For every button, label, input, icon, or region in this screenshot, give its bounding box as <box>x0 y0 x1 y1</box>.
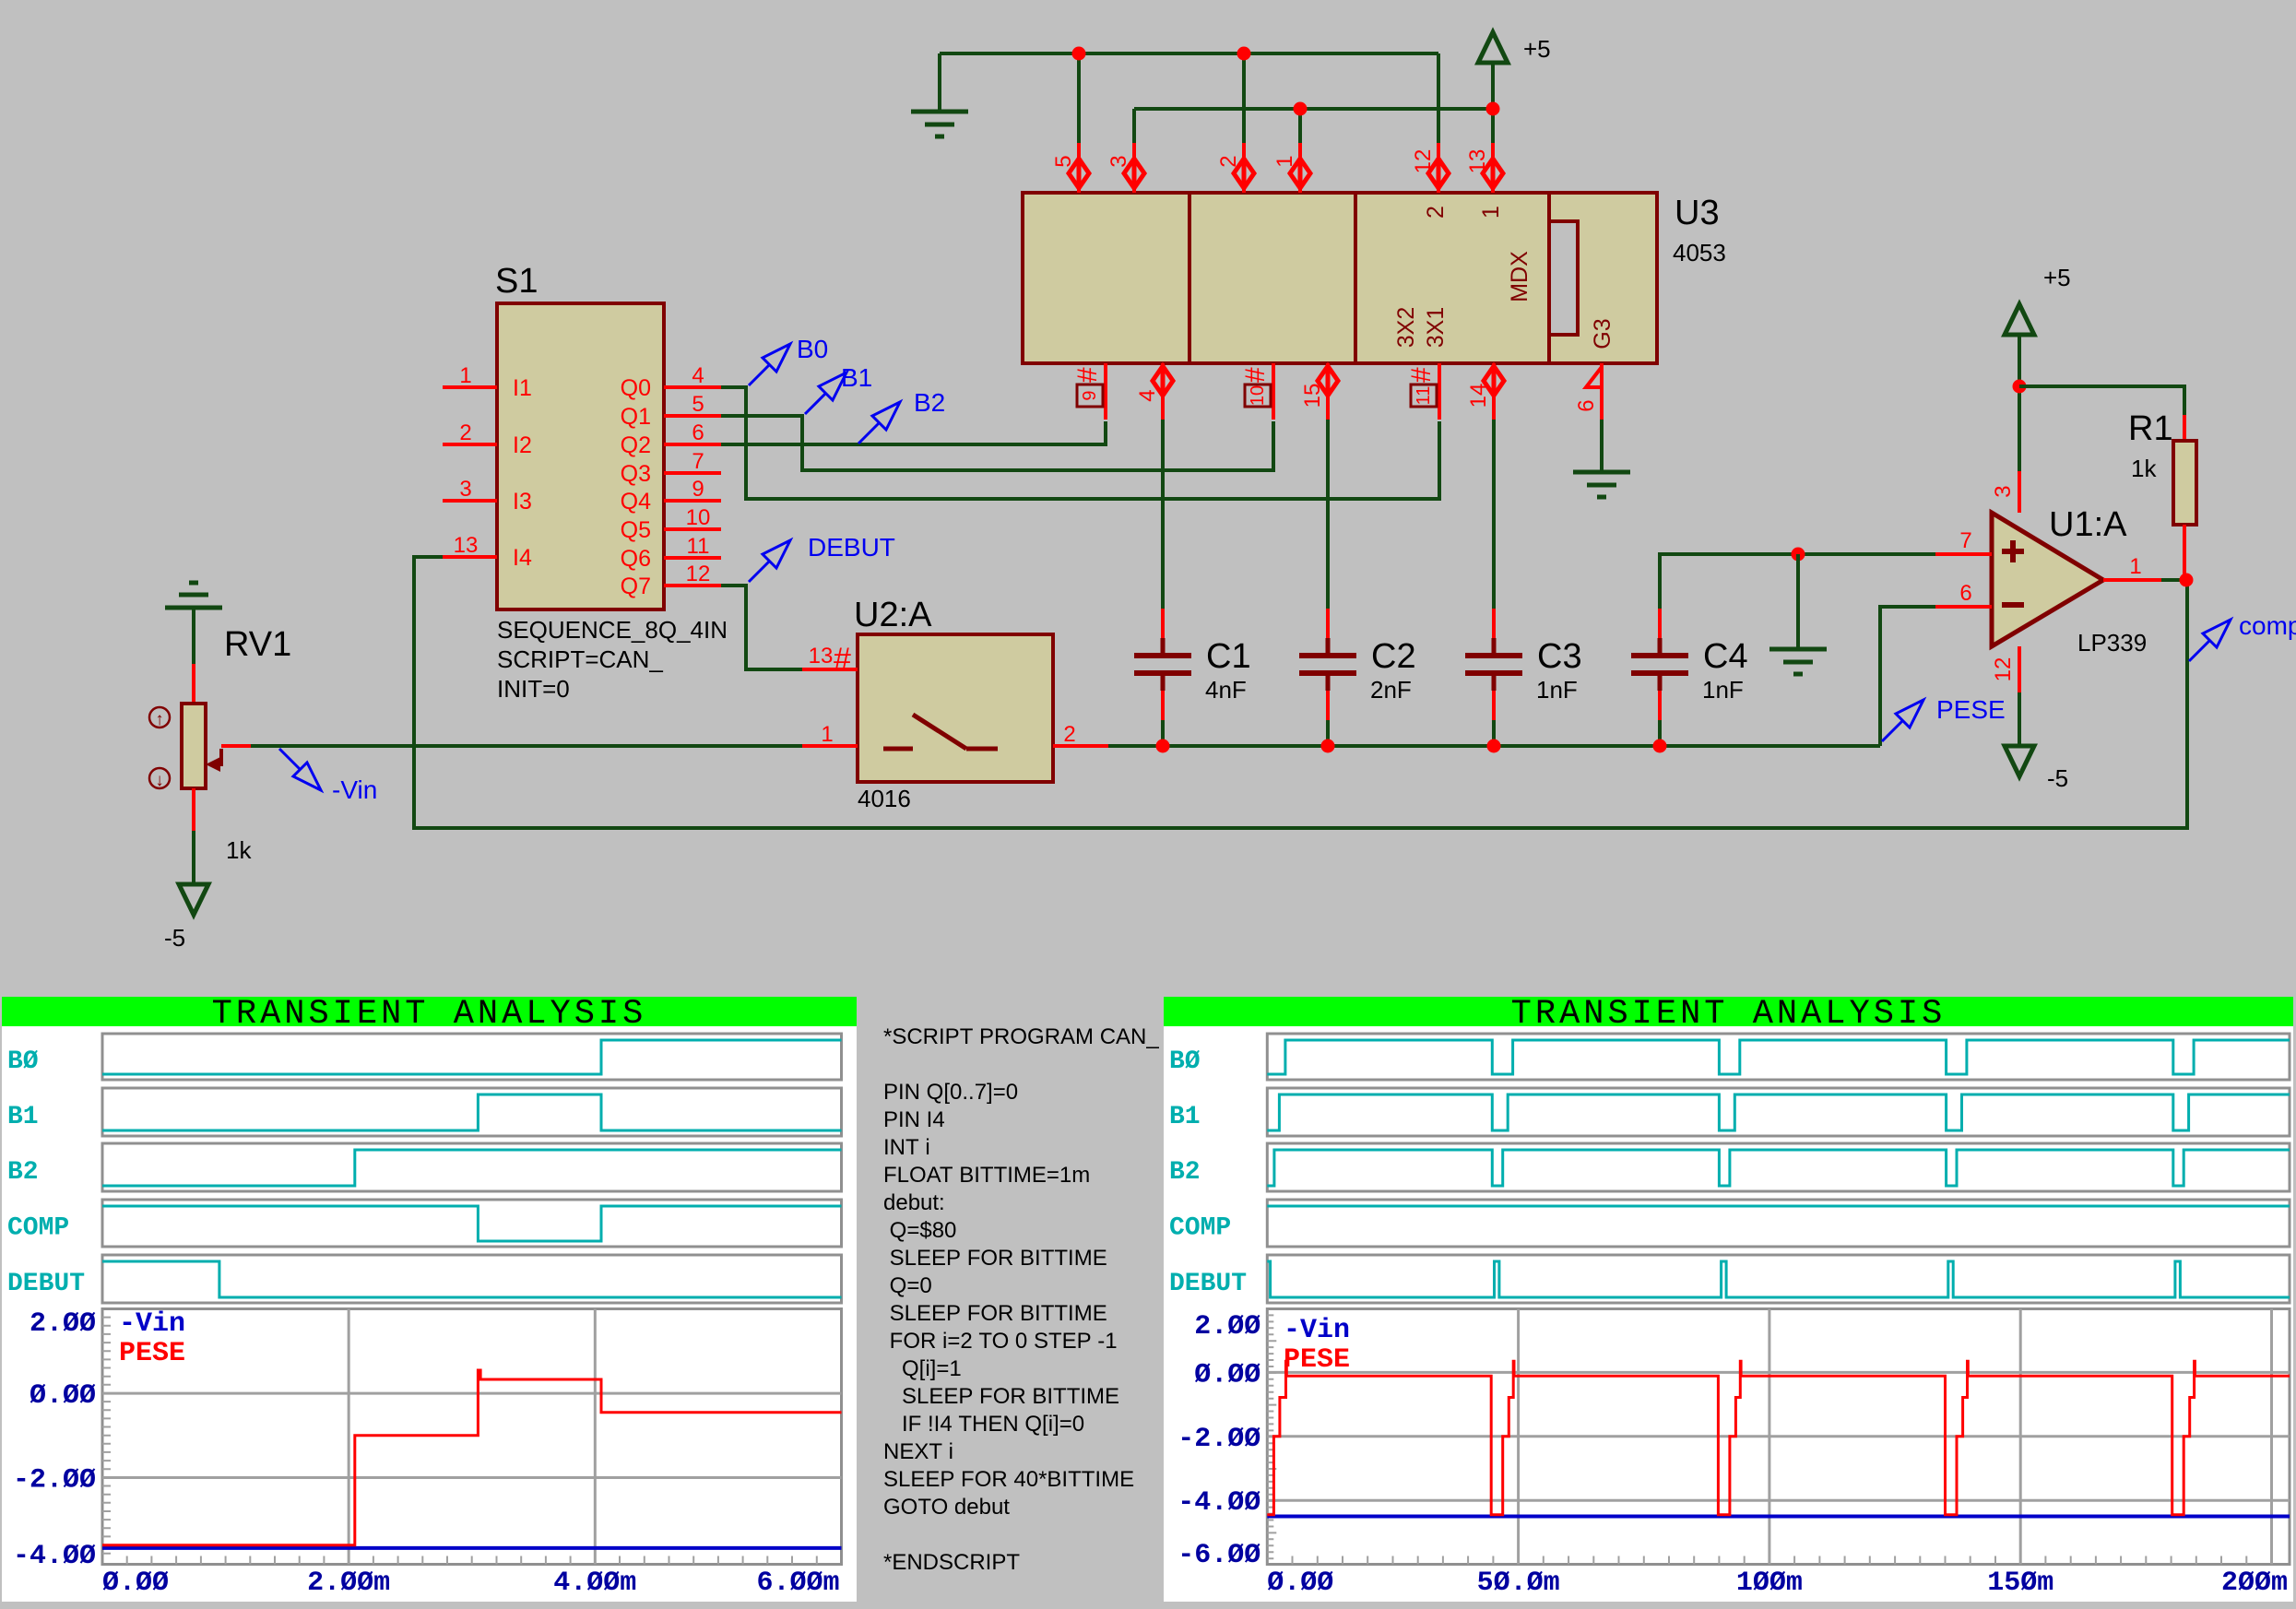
svg-text:+5: +5 <box>1523 35 1551 63</box>
svg-text:PESE: PESE <box>1936 695 2006 724</box>
U2 pin 1 <box>802 744 858 748</box>
svg-text:6: 6 <box>692 420 704 445</box>
left panel gridlines <box>102 1392 842 1395</box>
trace DEBUT (right) <box>1267 1261 2290 1297</box>
wire RV1 wiper to U2 pin 1 <box>221 744 251 748</box>
mux U3 body <box>1023 193 1549 363</box>
svg-text:1ØØm: 1ØØm <box>1736 1568 1803 1599</box>
net label DEBUT <box>749 540 790 582</box>
wire +5 to R1 <box>2019 386 2184 415</box>
ground (above RV1) <box>165 606 222 610</box>
U3 pin 6 (G3 enable) <box>1600 363 1604 420</box>
net label B0 <box>749 344 790 385</box>
S1 input pin I1 <box>443 385 497 389</box>
svg-text:↑: ↑ <box>155 710 164 729</box>
svg-text:C1: C1 <box>1206 637 1251 676</box>
junction dot +5/R1 <box>2013 380 2027 394</box>
capacitor C4 <box>1658 609 1662 638</box>
svg-text:Ø.ØØ: Ø.ØØ <box>102 1568 169 1599</box>
svg-text:1: 1 <box>459 363 471 388</box>
svg-text:U1:A: U1:A <box>2049 505 2127 544</box>
trace PESE (left) <box>102 1370 842 1545</box>
svg-text:1: 1 <box>1478 206 1504 219</box>
analogue plot box <box>1267 1309 2290 1565</box>
svg-text:3: 3 <box>459 477 471 502</box>
svg-text:-5: -5 <box>2047 764 2068 792</box>
trace COMP (right) <box>1267 1205 2290 1208</box>
svg-text:COMP: COMP <box>1169 1214 1231 1243</box>
U3 bottom bus pin 11 <box>1438 363 1441 420</box>
svg-text:12: 12 <box>1411 149 1436 174</box>
trace B0 (right) <box>1267 1040 2290 1074</box>
wire rail U2 pin2 to PESE corner <box>1108 744 1880 748</box>
svg-text:1: 1 <box>2129 554 2141 579</box>
svg-text:12: 12 <box>1991 657 2016 682</box>
S1 input pin I2 <box>443 443 497 446</box>
ground (top-left) <box>911 110 968 114</box>
svg-text:TRANSIENT ANALYSIS: TRANSIENT ANALYSIS <box>212 995 647 1034</box>
svg-text:6: 6 <box>1959 581 1971 606</box>
svg-text:C2: C2 <box>1371 637 1416 676</box>
svg-text:4: 4 <box>1135 389 1160 401</box>
wire Q0/B0 to U3 pin 11 <box>721 387 1439 499</box>
svg-text:LP339: LP339 <box>2077 629 2147 657</box>
wire U3 pin5 drop <box>1077 53 1081 143</box>
right panel minor ticks <box>1267 1315 2246 1564</box>
svg-text:-4.ØØ: -4.ØØ <box>1178 1487 1260 1519</box>
power +5 (top) <box>1478 32 1508 63</box>
svg-text:Q0: Q0 <box>621 375 651 401</box>
S1 output pin Q3 <box>664 471 721 475</box>
wire Q1/B1 to U3 pin 10 <box>721 416 1273 470</box>
graph panel background <box>1164 997 2293 1602</box>
U3 bottom pin 4 <box>1161 363 1165 420</box>
svg-text:B2: B2 <box>1169 1158 1201 1187</box>
svg-text:Ø.ØØ: Ø.ØØ <box>1194 1359 1260 1390</box>
U3 top pin 13 <box>1491 143 1495 193</box>
wire Q2/B2 to U3 pin 9 <box>721 421 1106 444</box>
svg-text:10: 10 <box>686 505 711 530</box>
wire I4 feedback <box>414 557 2187 828</box>
svg-text:13: 13 <box>809 644 834 668</box>
U1 pin 1 (out) <box>2103 578 2161 582</box>
svg-text:-4.ØØ: -4.ØØ <box>13 1541 96 1572</box>
capacitor C1 <box>1161 609 1165 638</box>
svg-text:2.ØØm: 2.ØØm <box>307 1568 390 1599</box>
S1 output pin Q4 <box>664 499 721 503</box>
U3 bottom bus pin 9 <box>1104 363 1107 420</box>
U2 pin 2 <box>1053 744 1108 748</box>
svg-text:2: 2 <box>1423 206 1449 219</box>
svg-text:Q3: Q3 <box>621 461 651 487</box>
svg-text:11: 11 <box>1414 386 1434 406</box>
wire pin6 run <box>1880 605 1935 609</box>
svg-text:+5: +5 <box>2043 264 2071 291</box>
svg-text:Q2: Q2 <box>621 432 651 458</box>
svg-text:MDX: MDX <box>1507 251 1533 302</box>
junction dot output <box>2180 574 2194 587</box>
net label B1 <box>805 373 846 414</box>
net label comp <box>2189 620 2231 661</box>
svg-text:1nF: 1nF <box>1536 676 1578 704</box>
svg-text:3X1: 3X1 <box>1423 307 1449 348</box>
svg-text:9: 9 <box>692 477 704 502</box>
capacitor C3 <box>1492 609 1496 638</box>
svg-text:B0: B0 <box>797 335 828 363</box>
power +5 (U1) <box>2005 304 2034 335</box>
graph title bar <box>2 997 857 1026</box>
trace -Vin (left) <box>102 1546 842 1550</box>
trace B2 (left) <box>102 1150 842 1186</box>
svg-text:9: 9 <box>1080 390 1100 400</box>
svg-text:Q6: Q6 <box>621 546 651 572</box>
svg-text:10: 10 <box>1248 385 1268 406</box>
svg-text:-Vin: -Vin <box>1284 1315 1350 1346</box>
potentiometer RV1 <box>192 664 195 704</box>
svg-text:11: 11 <box>687 534 710 559</box>
ground (near U1) <box>1769 647 1827 652</box>
svg-text:I4: I4 <box>513 545 532 571</box>
svg-text:13: 13 <box>1465 149 1490 174</box>
svg-text:DEBUT: DEBUT <box>808 533 895 562</box>
svg-text:1: 1 <box>821 722 833 747</box>
svg-text:C4: C4 <box>1703 637 1748 676</box>
junction dot +input/ground <box>1792 548 1805 562</box>
svg-text:2ØØm: 2ØØm <box>2221 1568 2288 1599</box>
svg-text:#: # <box>1072 367 1103 383</box>
S1 output pin Q7 <box>664 584 721 587</box>
U1 pin 12 (V-) <box>2018 646 2021 692</box>
S1 output pin Q1 <box>664 414 721 418</box>
U3 top pin 12 <box>1437 143 1440 193</box>
svg-text:#: # <box>1406 367 1437 383</box>
U3 bottom pin 15 <box>1326 363 1330 420</box>
simulation script text block <box>883 1023 1159 1577</box>
svg-text:COMP: COMP <box>7 1214 69 1243</box>
svg-text:2nF: 2nF <box>1370 676 1412 704</box>
digital trace row boxes <box>1267 1034 2290 1080</box>
svg-text:1k: 1k <box>2131 455 2157 482</box>
svg-text:-6.ØØ: -6.ØØ <box>1178 1540 1260 1571</box>
svg-text:5: 5 <box>692 392 704 417</box>
svg-text:2: 2 <box>1216 155 1241 167</box>
S1 input pin I4 <box>443 555 497 559</box>
svg-text:-Vin: -Vin <box>332 775 377 804</box>
U3 bottom pin 14 <box>1492 363 1496 420</box>
svg-text:B1: B1 <box>1169 1103 1201 1131</box>
svg-text:14: 14 <box>1466 384 1491 408</box>
wire junction to ground <box>1796 554 1800 649</box>
svg-text:3: 3 <box>1991 485 2016 497</box>
wire pin6 to ground <box>1600 420 1604 472</box>
comparator U1:A <box>1992 513 2103 646</box>
svg-text:6.ØØm: 6.ØØm <box>756 1568 839 1599</box>
graph panel background <box>2 997 857 1602</box>
svg-text:1: 1 <box>1272 155 1297 167</box>
svg-text:2.ØØ: 2.ØØ <box>30 1308 96 1340</box>
S1 output pin Q2 <box>664 443 721 446</box>
svg-text:-5: -5 <box>164 924 185 952</box>
svg-text:4: 4 <box>692 363 704 388</box>
svg-text:5Ø.Øm: 5Ø.Øm <box>1477 1568 1560 1599</box>
net label B2 <box>858 402 900 444</box>
svg-text:Q1: Q1 <box>621 404 651 430</box>
svg-text:Q4: Q4 <box>621 489 651 515</box>
S1 input pin I3 <box>443 499 497 503</box>
svg-text:TRANSIENT ANALYSIS: TRANSIENT ANALYSIS <box>1511 995 1947 1034</box>
wire U3 pin12 drop <box>1437 53 1440 143</box>
wire C4 to +input <box>1660 554 1935 609</box>
svg-text:-2.ØØ: -2.ØØ <box>1178 1424 1260 1455</box>
trace B1 (left) <box>102 1094 842 1130</box>
svg-text:2: 2 <box>459 420 471 445</box>
svg-text:comp: comp <box>2239 611 2296 640</box>
net label -Vin <box>279 749 321 790</box>
wire U3 pin4 to C1 <box>1161 420 1165 609</box>
svg-text:Ø.ØØ: Ø.ØØ <box>1267 1568 1333 1599</box>
svg-text:SEQUENCE_8Q_4IN: SEQUENCE_8Q_4IN <box>497 616 728 644</box>
U3 bottom bus pin 10 <box>1272 363 1275 420</box>
ground (below G3) <box>1573 470 1630 475</box>
svg-text:PESE: PESE <box>1284 1344 1350 1376</box>
trace B2 (right) <box>1267 1150 2290 1186</box>
svg-text:1k: 1k <box>226 836 252 864</box>
svg-text:SCRIPT=CAN_: SCRIPT=CAN_ <box>497 645 663 673</box>
svg-text:Q5: Q5 <box>621 517 651 543</box>
svg-text:3X2: 3X2 <box>1393 307 1419 348</box>
S1 output pin Q0 <box>664 385 721 389</box>
svg-text:4.ØØm: 4.ØØm <box>553 1568 636 1599</box>
trace -Vin (right) <box>1267 1515 2290 1519</box>
svg-text:1nF: 1nF <box>1702 676 1744 704</box>
digital trace row boxes <box>102 1034 842 1080</box>
trace B1 (right) <box>1267 1094 2290 1130</box>
svg-text:3: 3 <box>1107 155 1131 167</box>
wire U3 pin3 drop <box>1132 109 1136 143</box>
U3 top pin 1 <box>1298 143 1302 193</box>
resistor R1 <box>2183 415 2186 441</box>
wire U3 pin1 drop <box>1298 109 1302 143</box>
junction dot rail/pin1 <box>1294 102 1308 116</box>
svg-text:-2.ØØ: -2.ØØ <box>13 1465 96 1497</box>
svg-text:Q7: Q7 <box>621 574 651 599</box>
wire U3 pin14 to C3 <box>1492 420 1496 609</box>
switch U2:A body <box>858 634 1053 782</box>
junction dot rail/pin5 <box>1072 47 1086 61</box>
svg-text:7: 7 <box>1959 528 1971 553</box>
svg-text:INIT=0: INIT=0 <box>497 675 570 703</box>
wire U3 pin2 drop <box>1242 53 1246 143</box>
sequence generator S1 body <box>497 303 664 609</box>
right panel gridlines <box>1267 1371 2290 1374</box>
trace COMP (left) <box>102 1206 842 1241</box>
svg-text:R1: R1 <box>2128 409 2173 448</box>
power -5 (below RV1) <box>179 884 208 915</box>
junction dot rail/pin2 <box>1237 47 1251 61</box>
svg-text:13: 13 <box>454 533 479 558</box>
wire +5 stem to pin13 <box>1491 63 1495 143</box>
svg-text:B2: B2 <box>7 1158 39 1187</box>
svg-text:Ø.ØØ: Ø.ØØ <box>30 1380 96 1412</box>
svg-text:I3: I3 <box>513 489 532 515</box>
svg-text:B1: B1 <box>7 1103 39 1131</box>
svg-text:7: 7 <box>692 449 704 474</box>
svg-text:BØ: BØ <box>1169 1047 1201 1076</box>
trace PESE (right) <box>1267 1361 2290 1515</box>
trace B0 (left) <box>102 1040 842 1074</box>
svg-text:2: 2 <box>1063 722 1075 747</box>
net label PESE <box>1882 700 1923 741</box>
svg-text:U2:A: U2:A <box>854 596 932 634</box>
svg-text:RV1: RV1 <box>224 625 291 664</box>
U2 pin 13 (control) <box>802 668 858 671</box>
svg-text:#: # <box>1240 367 1271 383</box>
U3 top pin 5 <box>1077 143 1081 193</box>
svg-text:U3: U3 <box>1675 194 1720 232</box>
svg-text:2.ØØ: 2.ØØ <box>1194 1311 1260 1343</box>
S1 output pin Q6 <box>664 556 721 560</box>
S1 output pin Q5 <box>664 527 721 531</box>
svg-text:BØ: BØ <box>7 1047 39 1076</box>
junction dot rail/+5 <box>1486 102 1500 116</box>
svg-text:↓: ↓ <box>155 771 164 790</box>
analogue plot box <box>102 1309 842 1565</box>
svg-text:I1: I1 <box>513 375 532 401</box>
svg-text:PESE: PESE <box>119 1338 185 1369</box>
trace DEBUT (left) <box>102 1261 842 1297</box>
power -5 (U1) <box>2018 692 2021 746</box>
U3 top pin 2 <box>1242 143 1246 193</box>
capacitor C2 <box>1326 609 1330 638</box>
svg-text:15: 15 <box>1300 384 1325 408</box>
U1 pin 6 (-) <box>1935 605 1992 609</box>
left panel minor ticks <box>102 1318 817 1565</box>
U2 switch symbol <box>883 715 998 749</box>
svg-text:4053: 4053 <box>1673 239 1726 266</box>
graph title bar <box>1164 997 2293 1026</box>
U1 pin 7 (+) <box>1935 552 1992 556</box>
svg-text:G3: G3 <box>1590 318 1615 349</box>
wire VDD rail (top) <box>940 52 1438 55</box>
svg-text:B2: B2 <box>914 388 945 417</box>
svg-text:B1: B1 <box>841 363 872 392</box>
wire Q7/DEBUT to U2 pin 13 <box>721 586 802 669</box>
svg-text:4nF: 4nF <box>1205 676 1247 704</box>
svg-text:C3: C3 <box>1537 637 1582 676</box>
svg-text:S1: S1 <box>495 262 538 301</box>
svg-text:DEBUT: DEBUT <box>7 1270 85 1298</box>
svg-text:I2: I2 <box>513 432 532 458</box>
U1 pin 3 (V+) <box>2018 471 2021 513</box>
svg-text:6: 6 <box>1574 399 1599 411</box>
wire second rail <box>1134 107 1493 111</box>
svg-text:-Vin: -Vin <box>119 1308 185 1340</box>
svg-text:DEBUT: DEBUT <box>1169 1270 1247 1298</box>
svg-text:#: # <box>834 642 851 677</box>
svg-text:4016: 4016 <box>858 785 911 812</box>
svg-text:12: 12 <box>686 562 711 586</box>
svg-text:15Øm: 15Øm <box>1987 1568 2053 1599</box>
svg-text:5: 5 <box>1051 155 1076 167</box>
wire U3 pin15 to C2 <box>1326 420 1330 609</box>
U3 top pin 3 <box>1132 143 1136 193</box>
